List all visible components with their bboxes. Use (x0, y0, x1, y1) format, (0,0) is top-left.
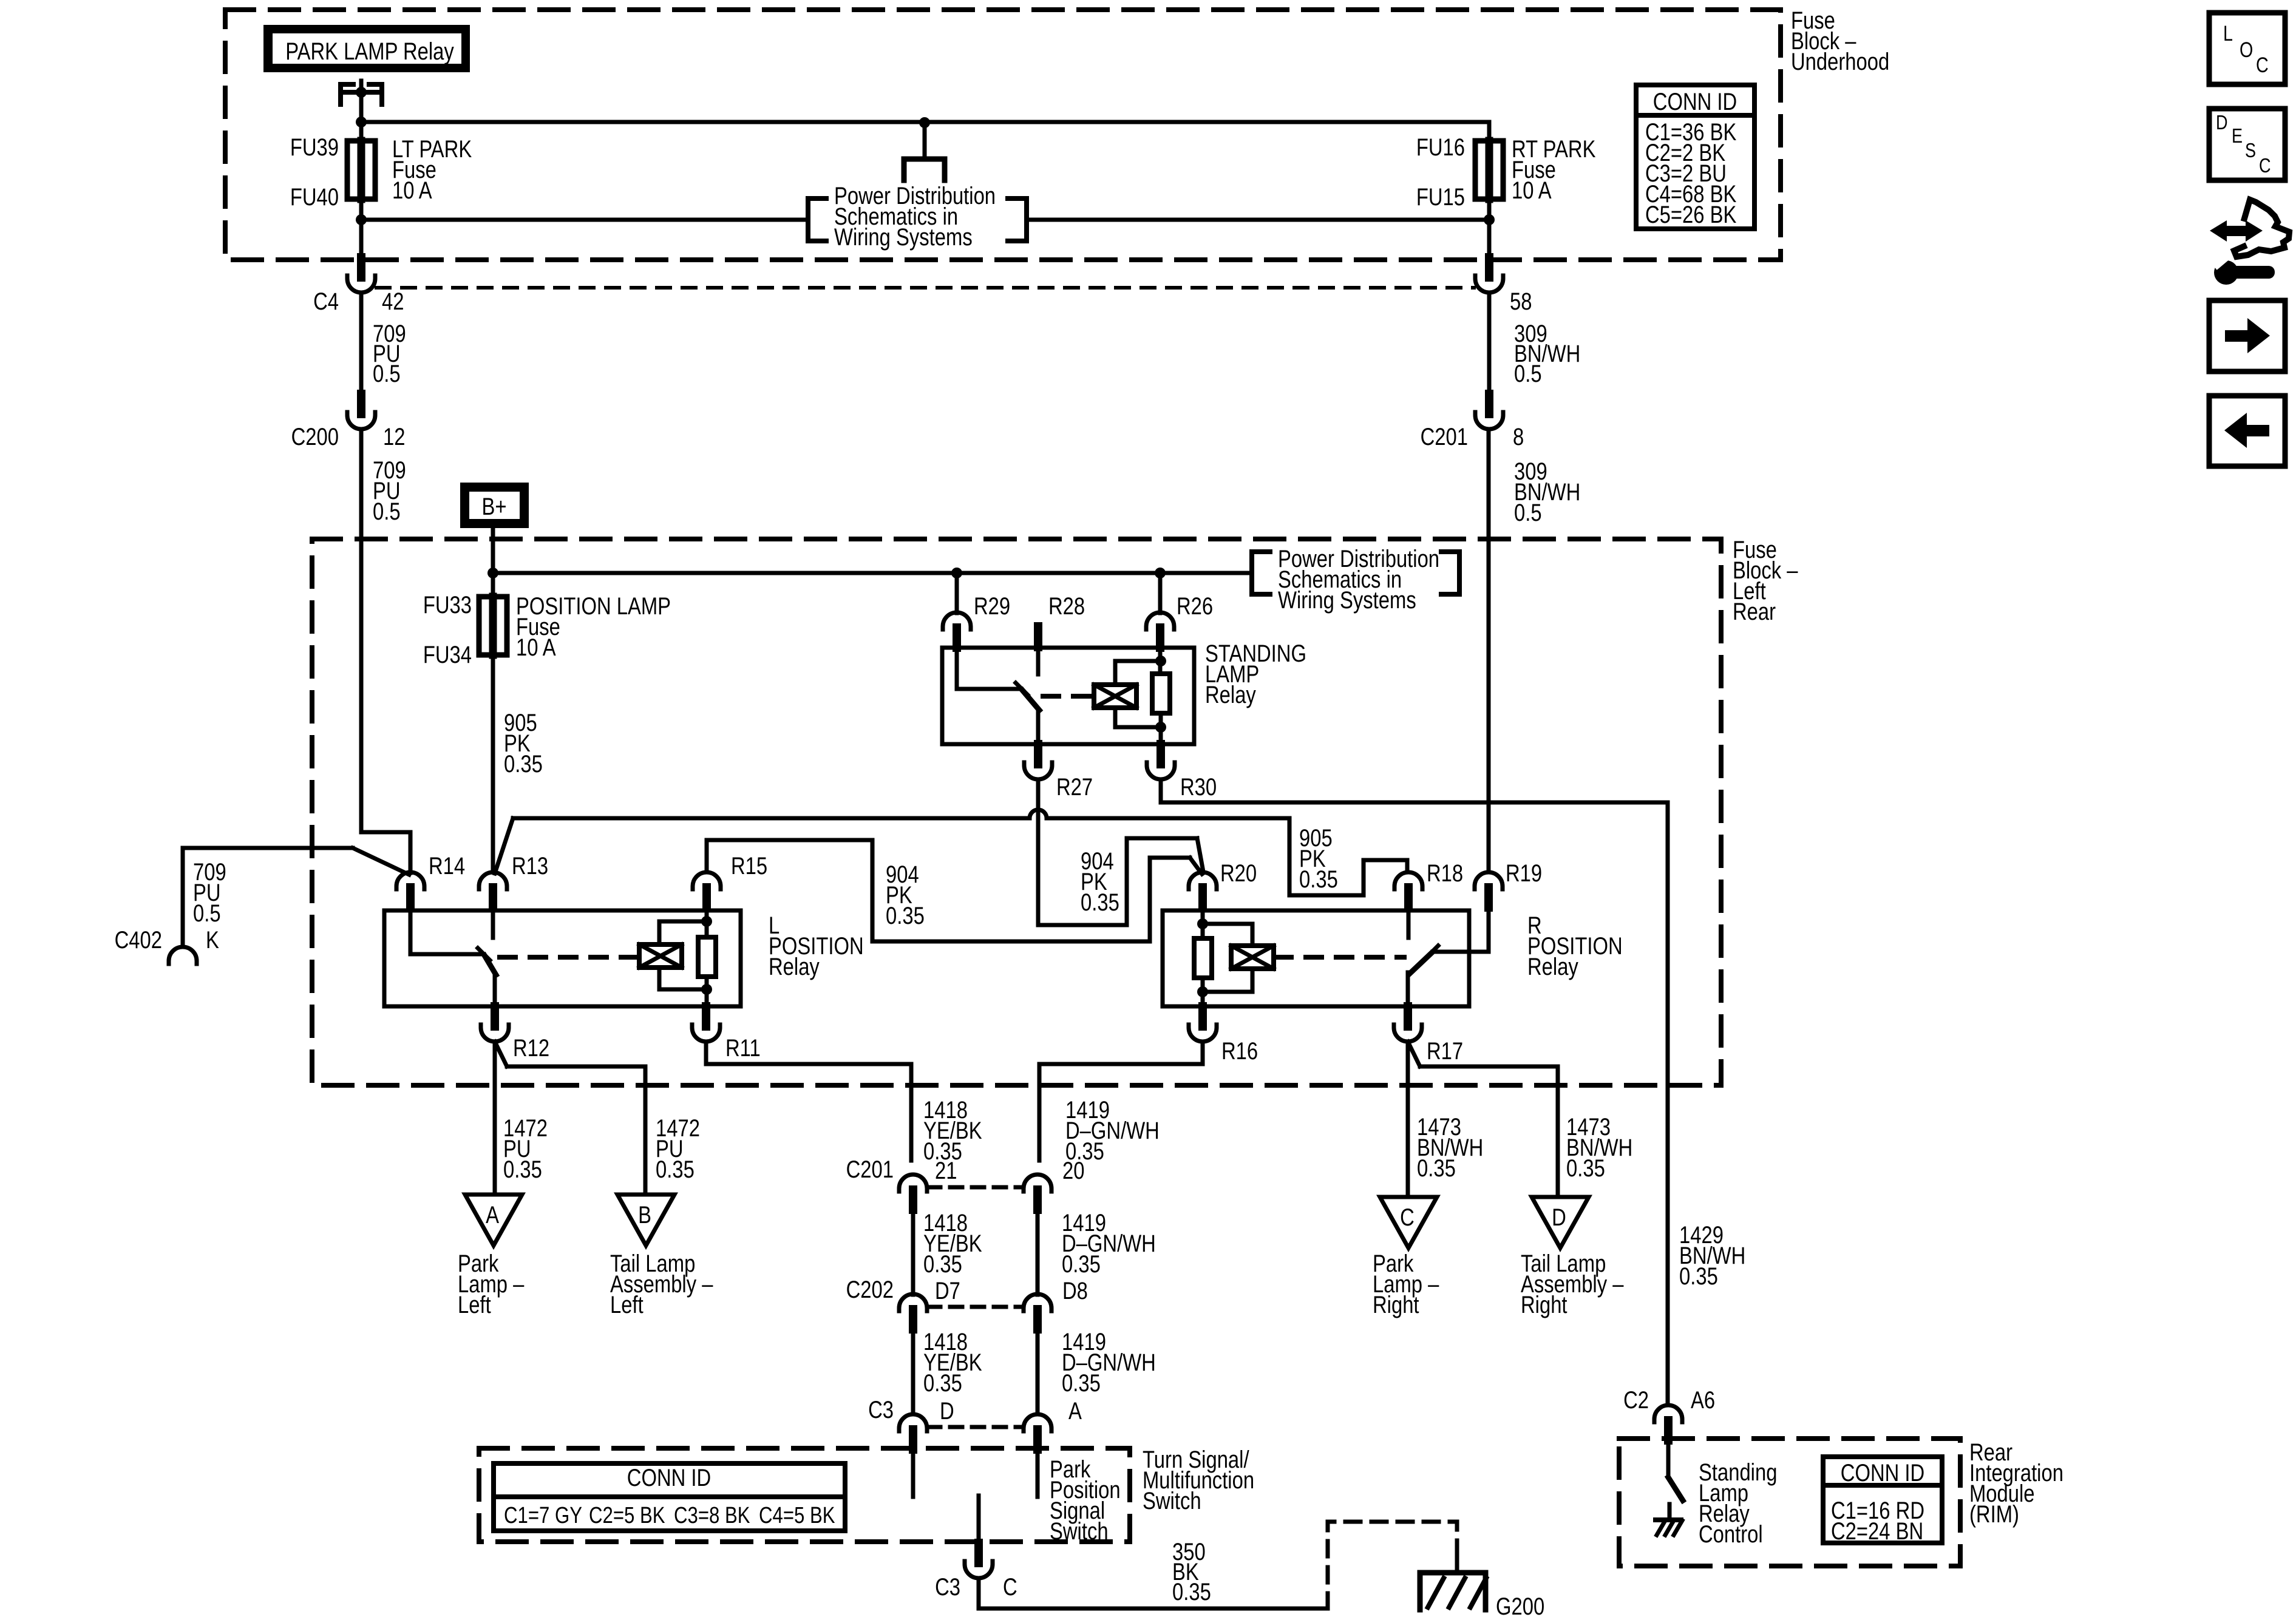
fixed contact tick R (1426, 946, 1438, 958)
connector R29 (943, 612, 971, 629)
ground stem RIM (1668, 1504, 1672, 1520)
svg-text:Relay: Relay (769, 953, 820, 980)
svg-text:K: K (206, 926, 219, 954)
svg-text:FU34: FU34 (423, 641, 472, 668)
svg-text:Right: Right (1373, 1291, 1419, 1318)
blade to R27 wire (1036, 709, 1041, 744)
svg-text:FU16: FU16 (1416, 134, 1465, 161)
wire R11 to C201-21 (706, 1042, 911, 1161)
svg-text:R14: R14 (429, 852, 465, 880)
R position relay box (1163, 910, 1469, 1006)
svg-text:R20: R20 (1220, 859, 1257, 887)
connector R14 (396, 872, 424, 889)
svg-text:R30: R30 (1180, 773, 1217, 801)
conn id box switch (494, 1463, 845, 1531)
connector 58 (1475, 276, 1503, 293)
connector C201 pin 21 (899, 1175, 927, 1192)
wire R15 up and over (707, 840, 1190, 941)
R26 internal wire (1158, 647, 1163, 674)
svg-text:0.35: 0.35 (503, 1156, 542, 1183)
svg-text:R18: R18 (1427, 859, 1463, 887)
wire bus1 (361, 120, 1489, 124)
resistor L relay (698, 937, 716, 977)
node coil top L (701, 916, 712, 927)
svg-text:21: 21 (935, 1157, 957, 1184)
C3 dashed link (928, 1425, 1022, 1429)
wire FU40 to C4 (359, 220, 364, 257)
svg-text:0.35: 0.35 (886, 902, 925, 929)
svg-text:Left: Left (610, 1291, 644, 1318)
icon back arrow (2224, 413, 2269, 448)
svg-text:R15: R15 (731, 852, 767, 880)
svg-text:Wiring Systems: Wiring Systems (1278, 586, 1416, 614)
connector R18 (1394, 872, 1422, 889)
svg-text:C: C (1003, 1573, 1017, 1601)
svg-text:A6: A6 (1691, 1386, 1715, 1414)
connector C201 pin 20 (1024, 1175, 1051, 1192)
pin stub R28 (1034, 626, 1042, 647)
svg-text:D7: D7 (935, 1277, 960, 1304)
wire bus1 corner to FU16 (1487, 122, 1492, 141)
svg-text:CONN ID: CONN ID (627, 1464, 711, 1491)
wire C3-D dangle (911, 1449, 915, 1497)
wire resistor bottom L (705, 977, 709, 1006)
switch blade RIM (1668, 1477, 1683, 1500)
wire through fuse FU33 (489, 597, 497, 655)
B+ box (460, 483, 529, 528)
grommet D (1532, 1197, 1589, 1248)
icon forward arrow box (2209, 300, 2285, 371)
R29 internal wire (957, 647, 1021, 689)
icon LOC box (2209, 13, 2285, 84)
svg-text:C4: C4 (313, 288, 339, 315)
relay coil standing (1094, 685, 1136, 708)
svg-text:A: A (1068, 1397, 1082, 1425)
wire FU15 to 58 (1487, 220, 1492, 257)
wire B+ bus (493, 571, 1252, 575)
connector C200 pin 12 (347, 412, 375, 429)
svg-text:R11: R11 (725, 1034, 761, 1062)
svg-text:C201: C201 (846, 1156, 894, 1183)
svg-text:0.35: 0.35 (1417, 1154, 1456, 1182)
wire C3-C inside switch (977, 1496, 981, 1543)
wire C3-A dangle (1036, 1449, 1040, 1497)
svg-text:0.5: 0.5 (193, 900, 221, 927)
wire bus2 left segment (361, 218, 808, 222)
fixed contact tick L (478, 948, 490, 960)
svg-text:L: L (2223, 21, 2233, 45)
C202 dashed link (928, 1305, 1022, 1309)
svg-text:0.5: 0.5 (1514, 499, 1542, 526)
fuse FU39/FU40 LT PARK (347, 141, 375, 199)
switch blade R (1410, 953, 1432, 974)
resistor standing relay (1152, 674, 1170, 713)
node R26 branch (1155, 568, 1166, 578)
wire C402 up and right (183, 848, 353, 947)
svg-text:0.35: 0.35 (1081, 889, 1119, 916)
fuse block underhood dashed box (225, 10, 1781, 260)
connector C402 pin K (169, 947, 197, 964)
connector R11 (692, 1025, 720, 1042)
conn id box RIM (1823, 1457, 1942, 1543)
svg-text:R29: R29 (974, 592, 1010, 620)
wire through fuse FU39 (358, 141, 365, 199)
connector R17 (1394, 1025, 1422, 1042)
svg-text:C201: C201 (1421, 423, 1468, 450)
svg-text:0.35: 0.35 (1299, 866, 1338, 893)
svg-text:D: D (940, 1397, 954, 1425)
svg-text:58: 58 (1510, 288, 1532, 315)
svg-text:0.35: 0.35 (656, 1156, 695, 1183)
svg-text:C: C (2259, 155, 2271, 177)
ground symbol RIM (1656, 1517, 1681, 1522)
R20 internal wire (1201, 907, 1205, 938)
svg-text:0.35: 0.35 (1062, 1250, 1101, 1278)
svg-text:C: C (1400, 1204, 1415, 1231)
conn id box underhood (1636, 85, 1754, 229)
wire R12 to A (493, 1042, 497, 1195)
bracket close powerdist b+ (1441, 552, 1459, 594)
wire C201-8 down to R19 (1487, 429, 1491, 872)
standing lamp relay box (942, 648, 1194, 744)
fuse FU16/FU15 RT PARK (1475, 141, 1503, 199)
wire A6 into RIM (1666, 1440, 1671, 1477)
wire FU40 to bus2 (359, 199, 364, 220)
wire D7 to C3-D (911, 1329, 915, 1414)
svg-text:C1=7 GY: C1=7 GY (504, 1503, 582, 1528)
connector R12 (481, 1025, 509, 1042)
svg-text:Right: Right (1521, 1291, 1567, 1318)
connector C202 pin D8 (1024, 1294, 1051, 1311)
icon wrench (2214, 260, 2238, 285)
wire C200 corner to R14 (361, 832, 410, 873)
svg-text:C2=5 BK: C2=5 BK (589, 1503, 665, 1528)
fuse block left rear dashed box (312, 539, 1721, 1085)
svg-text:D: D (1552, 1204, 1566, 1231)
svg-text:10 A: 10 A (1512, 177, 1552, 204)
coil loop L (659, 921, 707, 944)
blade to R17 wire (1406, 972, 1410, 1006)
mech linkage dashes R (1275, 955, 1404, 960)
svg-text:R27: R27 (1056, 773, 1093, 801)
L position relay box (384, 910, 741, 1006)
node bus2 at FU15 (1484, 214, 1495, 225)
icon hand double arrow (2210, 220, 2263, 242)
svg-text:10 A: 10 A (392, 177, 432, 204)
connector R27 (1024, 762, 1052, 779)
node bus1 at FU39 (356, 117, 367, 127)
node coil bottom L (701, 984, 712, 995)
connector R26 (1146, 612, 1174, 629)
wire C4 to C200 (359, 293, 364, 394)
svg-text:0.35: 0.35 (1062, 1369, 1101, 1397)
bracket open powerdist b+ (1252, 552, 1270, 594)
C201 dashed link (928, 1185, 1022, 1190)
svg-text:Relay: Relay (1527, 953, 1578, 980)
icon back arrow box (2209, 396, 2285, 466)
node coil bottom R (1197, 986, 1208, 997)
grommet C (1380, 1197, 1437, 1248)
svg-text:0.5: 0.5 (1514, 360, 1542, 387)
svg-text:S: S (2245, 140, 2256, 162)
rear integration module dashed box (1619, 1439, 1960, 1566)
turn signal switch dashed box (479, 1448, 1130, 1542)
svg-text:C5=26 BK: C5=26 BK (1645, 201, 1736, 228)
wire R27 to R20 path (1038, 838, 1197, 925)
fixed contact tick standing (1016, 683, 1028, 695)
svg-text:O: O (2240, 38, 2253, 61)
wire bus2 right segment (1027, 218, 1489, 222)
svg-text:C3=8 BK: C3=8 BK (674, 1503, 750, 1528)
svg-text:20: 20 (1062, 1157, 1084, 1184)
wire resistor bottom standing (1159, 713, 1163, 744)
node coil top R (1197, 918, 1208, 929)
wire R27 down (1036, 779, 1041, 925)
svg-text:C2: C2 (1623, 1386, 1649, 1414)
svg-text:B: B (638, 1201, 651, 1229)
wire R13 diagonal up (495, 818, 513, 873)
wire FU15 to node (1487, 199, 1492, 220)
svg-text:R13: R13 (512, 852, 548, 880)
svg-text:PARK LAMP Relay: PARK LAMP Relay (285, 38, 454, 65)
ground G200 symbol (1455, 1552, 1459, 1573)
svg-text:0.35: 0.35 (923, 1369, 962, 1397)
svg-text:CONN ID: CONN ID (1841, 1459, 1924, 1486)
wire FU34 down to R13 (491, 655, 495, 872)
wire bus to R29 (955, 573, 959, 613)
svg-text:C3: C3 (935, 1573, 960, 1601)
svg-text:R19: R19 (1506, 859, 1542, 887)
resistor R relay (1194, 938, 1212, 978)
node bus2 at FU40 (356, 214, 367, 225)
svg-text:0.35: 0.35 (1566, 1154, 1605, 1182)
connector R30 (1147, 762, 1175, 779)
connector R13 (479, 872, 507, 889)
connector C3 pin C (965, 1561, 993, 1578)
svg-text:C200: C200 (291, 423, 339, 450)
wire park lamp relay to bus1 (359, 81, 364, 141)
svg-text:0.35: 0.35 (1679, 1263, 1718, 1290)
svg-text:C2=24 BN: C2=24 BN (1831, 1517, 1923, 1545)
svg-text:A: A (486, 1201, 499, 1229)
svg-text:R16: R16 (1221, 1037, 1258, 1065)
wire resistor bottom R (1201, 978, 1205, 1006)
node B+ bus (487, 568, 498, 578)
R14 internal wire (410, 907, 483, 954)
grommet B (617, 1195, 674, 1246)
svg-text:0.5: 0.5 (373, 498, 401, 525)
connector C3 pin A (1024, 1414, 1051, 1431)
svg-text:Left: Left (458, 1291, 491, 1318)
switch blade L (484, 955, 496, 975)
svg-text:R17: R17 (1427, 1037, 1463, 1065)
wire 58 to C201 (1487, 293, 1492, 394)
svg-text:Relay: Relay (1205, 681, 1256, 708)
wire through fuse FU16 (1486, 141, 1493, 199)
blade to R12 wire (493, 974, 497, 1006)
mech linkage dashes standing (1043, 694, 1092, 699)
wire R12 branch to B (495, 1042, 507, 1066)
svg-text:FU39: FU39 (290, 134, 339, 161)
wire D8 to C3-A (1036, 1329, 1040, 1414)
connector C201 pin 8 (1475, 412, 1503, 429)
connector R15 (693, 872, 721, 889)
connector C3 pin D (899, 1414, 927, 1431)
wire 905 bus to R18 (513, 816, 1030, 821)
connector R19 (1475, 872, 1503, 889)
node bus1 offpage stem (919, 117, 930, 128)
svg-text:0.35: 0.35 (504, 750, 543, 778)
wire R16 to C201-20 (1039, 1042, 1203, 1161)
svg-text:G200: G200 (1496, 1593, 1544, 1617)
svg-text:Switch: Switch (1050, 1517, 1109, 1545)
pin stub R13 dangle (491, 907, 495, 938)
wire bus to R26 (1158, 573, 1163, 613)
svg-text:B+: B+ (481, 493, 506, 520)
svg-text:Rear: Rear (1733, 598, 1776, 625)
relay coil R (1231, 946, 1274, 969)
connector R20 (1189, 872, 1217, 889)
ground run dashed bridge (1328, 1522, 1457, 1609)
offpage bracket symbol (923, 123, 927, 159)
svg-text:R26: R26 (1177, 592, 1213, 620)
wire 1429 down right side (1666, 802, 1670, 1405)
svg-text:Switch: Switch (1143, 1487, 1201, 1514)
wire R17 to C (1406, 1042, 1410, 1197)
node R29 branch (951, 568, 962, 578)
relay coil L (639, 944, 682, 968)
svg-text:C4=5 BK: C4=5 BK (759, 1503, 835, 1528)
wire R17 branch to D (1408, 1042, 1420, 1066)
icon DESC box (2209, 109, 2285, 180)
wire C402 diagonal to R14 (353, 848, 409, 875)
grommet A (465, 1195, 522, 1246)
wire C3-C to ground run (979, 1578, 1328, 1609)
svg-text:C202: C202 (846, 1276, 894, 1303)
svg-text:Control: Control (1699, 1520, 1763, 1548)
svg-text:FU40: FU40 (290, 183, 339, 211)
connector C4 pin 42 (347, 276, 375, 293)
connector R16 (1189, 1025, 1217, 1042)
svg-text:C: C (2256, 53, 2269, 76)
R19 internal wire (1433, 907, 1489, 952)
icon hand outline (2234, 200, 2289, 257)
svg-text:FU15: FU15 (1416, 183, 1465, 211)
bracket close powerdist top (1008, 198, 1027, 241)
wire B+ down (491, 528, 495, 597)
fuse FU33/FU34 POSITION LAMP (479, 597, 507, 655)
switch blade standing (1022, 690, 1039, 710)
bracket open powerdist top (808, 198, 826, 241)
connector C2 pin A6 (1654, 1405, 1682, 1422)
coil loop R (1203, 924, 1252, 946)
svg-text:0.35: 0.35 (923, 1250, 962, 1278)
node coil bottom standing (1155, 722, 1166, 733)
svg-text:C402: C402 (115, 926, 162, 954)
svg-text:0.5: 0.5 (373, 360, 401, 387)
svg-text:Underhood: Underhood (1791, 48, 1889, 75)
svg-text:42: 42 (382, 288, 404, 315)
svg-text:E: E (2232, 126, 2243, 147)
pin stub R18 dangle (1407, 907, 1411, 938)
svg-text:D: D (2216, 112, 2228, 134)
svg-text:Wiring Systems: Wiring Systems (834, 223, 973, 251)
icon forward arrow (2225, 318, 2270, 353)
svg-text:8: 8 (1513, 423, 1524, 450)
svg-text:FU33: FU33 (423, 591, 472, 619)
wire C200 down (359, 429, 364, 832)
coil loop standing (1115, 661, 1161, 685)
svg-text:C3: C3 (868, 1396, 894, 1423)
park lamp relay contact symbol (341, 84, 353, 104)
svg-text:D8: D8 (1062, 1277, 1088, 1304)
harness dotted line (376, 286, 1474, 290)
svg-text:10 A: 10 A (516, 634, 556, 661)
wire 21 to D7 (911, 1210, 915, 1295)
wire 20 to D8 (1036, 1210, 1040, 1295)
svg-text:0.35: 0.35 (1172, 1578, 1211, 1605)
svg-text:12: 12 (383, 423, 405, 450)
svg-text:(RIM): (RIM) (1969, 1500, 2019, 1528)
svg-text:CONN ID: CONN ID (1653, 88, 1737, 115)
PARK LAMP Relay title box (263, 25, 470, 72)
R15 internal wire (705, 907, 709, 937)
wire R30 right (1161, 779, 1668, 802)
connector C202 pin D7 (899, 1294, 927, 1311)
mech linkage dashes L (500, 955, 637, 960)
svg-text:R28: R28 (1048, 592, 1085, 620)
node coil top standing (1155, 656, 1166, 666)
svg-text:R12: R12 (513, 1034, 549, 1062)
